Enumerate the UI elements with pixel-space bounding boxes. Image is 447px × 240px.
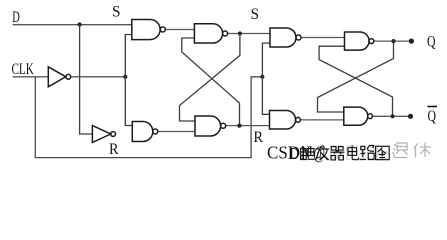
node Q junction (391, 39, 395, 43)
wire D drop to inverter U2 (80, 25, 93, 135)
wire CP riser to G5 and G6 (262, 43, 270, 114)
caption fa (316, 145, 329, 160)
wire Q feedback diagonal to G8 (318, 41, 394, 112)
wire G5 output to G7 (301, 37, 345, 39)
nand gate G6 (270, 111, 296, 130)
node CP' junction (123, 75, 127, 79)
nand gate G1 (132, 20, 160, 40)
nand gate G4 (195, 116, 221, 136)
caption lu (360, 146, 374, 160)
inverter U1 (48, 67, 66, 87)
svg-text:CLK: CLK (12, 61, 35, 78)
nand gate G8 (344, 107, 368, 125)
nand gate G5 (270, 28, 296, 47)
node CP junction (260, 75, 264, 79)
svg-text:D: D (12, 9, 20, 26)
node S junction (238, 31, 242, 35)
node D-branch junction (78, 22, 82, 26)
wire CLK input (13, 76, 49, 78)
caption chu (301, 146, 315, 160)
wire Q output (374, 40, 412, 42)
node Qbar terminal (408, 114, 413, 119)
svg-text:D: D (290, 144, 300, 163)
wire G3 output to G4 (158, 131, 195, 133)
nand gate G2 (194, 24, 222, 43)
inverter U2 (92, 126, 110, 143)
wire G2 feedback input from R-node (182, 38, 240, 126)
nand gate G7 (345, 32, 370, 50)
wire CLK bottom bus to slave clock (35, 77, 262, 158)
svg-text:R: R (254, 129, 264, 146)
node R junction (237, 124, 241, 128)
caption dian (348, 145, 359, 159)
wire G6 output to G8 (300, 119, 343, 121)
wire D input (13, 24, 132, 26)
svg-text:Q: Q (427, 34, 436, 51)
watermark char tui (393, 143, 432, 158)
node Qbar junction (390, 114, 394, 118)
wire R node G4 output to G6 (226, 125, 270, 127)
watermark char xiu (414, 143, 431, 158)
caption tu (376, 146, 390, 159)
wire inverter U1 output CP' (71, 76, 126, 78)
wire S node G2 output to G5 (228, 33, 270, 35)
nand gate G3 (132, 122, 153, 142)
wire CP' vertical to G1 and G3 (125, 35, 132, 126)
caption qi (330, 147, 344, 160)
wire G7 feedback input from Qbar node (319, 46, 392, 116)
svg-text:Q: Q (428, 108, 437, 125)
svg-text:S: S (112, 4, 121, 21)
svg-text:R: R (109, 141, 119, 158)
wire G1 output to G2 (165, 29, 194, 31)
svg-text:S: S (251, 6, 260, 23)
watermark glyphs behind caption (331, 146, 388, 159)
wire S feedback diagonal to G4 (180, 34, 240, 122)
wire Qbar output (373, 115, 411, 117)
node Q terminal (409, 39, 414, 44)
